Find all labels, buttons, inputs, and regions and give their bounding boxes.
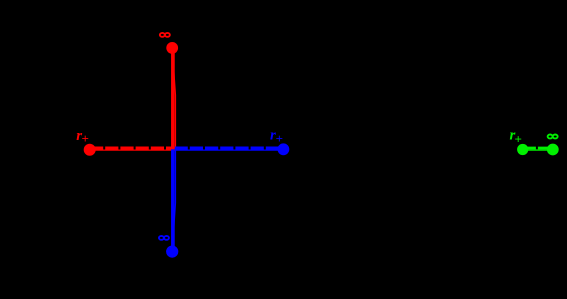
node: blue endpoint dot at infinity (bottom): [166, 246, 178, 258]
label: r+ (red, above left dot): [76, 128, 89, 146]
label: r+ (green, above left green dot): [510, 128, 522, 147]
node: green endpoint dot at r+ (left end of segment): [517, 144, 528, 155]
wire: blue thick dashed horizontal branch: [175, 147, 282, 150]
svg-text:+: +: [515, 131, 522, 146]
wire: blue thin solid contour, right dot to center to bottom dot: [172, 150, 283, 249]
node: red endpoint dot at r+ (left): [84, 144, 96, 156]
svg-text:+: +: [276, 131, 283, 146]
svg-text:+: +: [82, 131, 89, 146]
wire: green thick dashed segment: [523, 147, 550, 150]
wire: red thick dashed horizontal branch: [90, 147, 175, 150]
label: infinity (green, above right green dot): [548, 135, 558, 139]
label: infinity (blue, left of bottom dot): [159, 236, 169, 240]
node: green endpoint dot at infinity (right end of segment): [547, 144, 559, 156]
label: infinity (red, above top dot): [160, 33, 170, 37]
wire: blue thick solid vertical branch: [171, 149, 175, 248]
wire: red thin solid contour, left dot to center to top dot: [90, 50, 176, 150]
wire: red thick solid vertical branch: [171, 50, 175, 148]
node: red endpoint dot at infinity (top): [166, 42, 178, 54]
wire: green thin solid segment: [523, 149, 553, 151]
node: blue endpoint dot at r+ (right): [278, 143, 290, 155]
label: r+ (blue, above right dot): [270, 128, 283, 146]
